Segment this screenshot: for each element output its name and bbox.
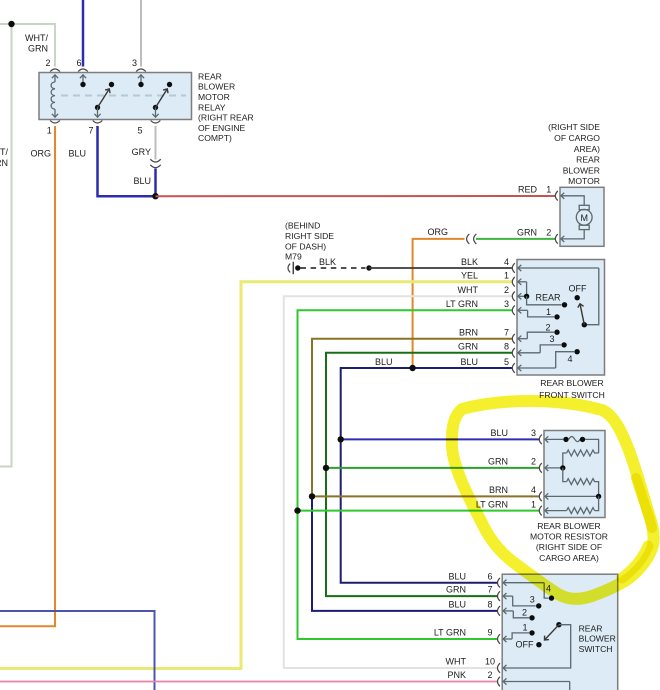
svg-text:RIGHT SIDE: RIGHT SIDE xyxy=(285,231,334,241)
svg-text:BLK: BLK xyxy=(319,257,336,267)
junction on WHT/GRN wire xyxy=(8,21,14,27)
relay pin 6 connector and contact xyxy=(78,69,88,72)
svg-text:MOTOR RESISTOR: MOTOR RESISTOR xyxy=(530,532,608,542)
svg-text:RN: RN xyxy=(0,158,8,168)
svg-text:1: 1 xyxy=(47,126,52,136)
front switch wiper blade xyxy=(582,322,587,327)
wire GRN to front switch pin 8 xyxy=(326,353,512,596)
resistor pin 4 node xyxy=(539,492,542,502)
svg-text:REAR BLOWER: REAR BLOWER xyxy=(540,378,604,388)
svg-text:CARGO AREA): CARGO AREA) xyxy=(539,553,599,563)
relay pin 1 connector xyxy=(50,121,60,124)
front switch pin 2 and REAR common xyxy=(512,292,515,302)
svg-text:6: 6 xyxy=(487,571,492,581)
svg-text:SWITCH: SWITCH xyxy=(579,644,613,654)
rear switch pin 9 to contact 1 xyxy=(498,634,501,644)
svg-text:M79: M79 xyxy=(285,252,302,262)
resistor element R1 xyxy=(567,450,599,456)
svg-text:LT GRN: LT GRN xyxy=(446,299,478,309)
relay K1 box: rear blower motor relay xyxy=(39,73,192,120)
wire BLU into relay pin 6 xyxy=(82,0,85,67)
svg-text:WHT: WHT xyxy=(446,657,467,667)
wire GRY from relay pin 5 xyxy=(155,126,157,160)
wire BLU from relay pin 7 xyxy=(98,126,156,196)
svg-text:6: 6 xyxy=(76,58,81,68)
svg-text:RED: RED xyxy=(518,185,538,195)
front switch pin 7 to contact 2 xyxy=(512,334,515,344)
junction BLU/RED node xyxy=(152,193,158,199)
hand-drawn yellow highlight circle around resistor xyxy=(452,401,654,599)
svg-text:PNK: PNK xyxy=(447,670,466,680)
svg-text:7: 7 xyxy=(88,126,93,136)
front switch pin 8 to contact 3 xyxy=(512,348,515,358)
svg-text:AREA): AREA) xyxy=(574,144,600,154)
svg-text:BLU: BLU xyxy=(460,357,478,367)
svg-text:3: 3 xyxy=(530,595,535,605)
wire PNK to rear blower switch pin 2 xyxy=(0,681,498,683)
inline connector GRY/BLU xyxy=(150,159,160,162)
svg-text:WHT/: WHT/ xyxy=(25,33,48,43)
svg-text:3: 3 xyxy=(504,299,509,309)
svg-text:YEL: YEL xyxy=(461,271,478,281)
svg-text:REAR: REAR xyxy=(576,155,600,165)
wire LT GRN to front switch pin 3 xyxy=(298,310,513,639)
svg-text:GRN: GRN xyxy=(488,457,508,467)
svg-text:(RIGHT REAR: (RIGHT REAR xyxy=(198,113,254,123)
wire GRN to rear blower motor pin 2 xyxy=(476,238,555,240)
svg-text:GRN: GRN xyxy=(446,585,466,595)
svg-text:1: 1 xyxy=(522,622,527,632)
svg-text:OFF: OFF xyxy=(569,284,587,294)
wire WHT to front switch pin 2 xyxy=(284,296,512,668)
rear blower front switch box xyxy=(517,260,605,376)
svg-text:BLOWER: BLOWER xyxy=(198,82,235,92)
relay switch blade 3-5 xyxy=(153,105,158,110)
highlight overlap stroke right xyxy=(636,478,652,528)
svg-text:4: 4 xyxy=(504,257,509,267)
svg-text:OFF: OFF xyxy=(516,640,534,650)
front switch OFF contact xyxy=(575,295,580,300)
svg-text:BLOWER: BLOWER xyxy=(579,634,616,644)
motor brush top xyxy=(579,205,589,209)
svg-text:2: 2 xyxy=(504,285,509,295)
junction ORG/BLU node xyxy=(409,365,415,371)
svg-text:LT GRN: LT GRN xyxy=(434,628,466,638)
svg-text:REAR: REAR xyxy=(536,293,562,303)
front switch pin 4 xyxy=(512,263,515,273)
M79 ground-side connector symbol xyxy=(288,264,290,273)
svg-text:BLU: BLU xyxy=(133,176,151,186)
wire BLU below inline connector xyxy=(154,169,157,197)
svg-text:OF CARGO: OF CARGO xyxy=(554,133,600,143)
svg-text:2: 2 xyxy=(487,670,492,680)
svg-text:7: 7 xyxy=(504,328,509,338)
resistor pin 1 xyxy=(539,506,542,516)
rear blower motor resistor box xyxy=(544,431,605,518)
rear switch pin 7 to contact 3 xyxy=(498,591,501,601)
svg-text:5: 5 xyxy=(504,357,509,367)
rear blower switch box xyxy=(502,574,618,690)
rear switch pin 8 to contact 2 xyxy=(498,606,501,616)
svg-text:GRN: GRN xyxy=(28,44,48,54)
svg-text:REAR BLOWER: REAR BLOWER xyxy=(537,521,601,531)
svg-text:GRN: GRN xyxy=(458,342,478,352)
relay pin 2 connector xyxy=(50,69,60,72)
svg-text:(RIGHT SIDE OF: (RIGHT SIDE OF xyxy=(536,542,602,552)
svg-text:1: 1 xyxy=(531,499,536,509)
svg-text:5: 5 xyxy=(137,126,142,136)
relay dashed actuation line xyxy=(61,95,186,97)
front switch pin 3 to contact 1 xyxy=(512,306,515,316)
wire ORG from relay pin 1 xyxy=(0,126,55,626)
svg-text:1: 1 xyxy=(546,185,551,195)
relay pin 7 lead xyxy=(97,108,99,118)
svg-text:2: 2 xyxy=(546,227,551,237)
wire YEL to front switch pin 1 xyxy=(0,282,512,669)
svg-text:BLU: BLU xyxy=(375,357,393,367)
svg-text:3: 3 xyxy=(549,334,554,344)
rear switch pin 2 lead xyxy=(498,677,501,687)
svg-text:OF ENGINE: OF ENGINE xyxy=(198,123,246,133)
rear switch OFF contact xyxy=(536,642,541,647)
rear switch pin 6 to contact 4 xyxy=(498,578,501,588)
svg-text:BRN: BRN xyxy=(459,328,478,338)
resistor pin 2 node xyxy=(539,463,542,473)
wire BLU bottom left horizontal xyxy=(0,611,155,690)
svg-text:3: 3 xyxy=(531,428,536,438)
svg-text:7: 7 xyxy=(487,585,492,595)
highlight overlap stroke bottom-right xyxy=(622,546,648,578)
svg-text:1: 1 xyxy=(546,307,551,317)
svg-text:9: 9 xyxy=(487,628,492,638)
svg-text:GRN: GRN xyxy=(517,227,537,237)
motor pin 1 xyxy=(555,191,558,201)
wire RED to rear blower motor pin 1 xyxy=(156,195,556,197)
svg-text:BLU: BLU xyxy=(448,571,466,581)
front switch pin 1 xyxy=(512,277,515,287)
wire BLU to front switch pin 5 xyxy=(341,368,512,583)
svg-text:2: 2 xyxy=(545,323,550,333)
svg-text:REAR: REAR xyxy=(579,623,603,633)
svg-text:2: 2 xyxy=(522,607,527,617)
svg-text:(BEHIND: (BEHIND xyxy=(285,221,320,231)
svg-text:ORG: ORG xyxy=(30,149,51,159)
svg-text:BRN: BRN xyxy=(489,485,508,495)
motor pin 2 xyxy=(561,230,584,239)
svg-text:8: 8 xyxy=(504,342,509,352)
svg-text:10: 10 xyxy=(485,657,495,667)
svg-text:4: 4 xyxy=(531,485,536,495)
svg-text:(RIGHT SIDE: (RIGHT SIDE xyxy=(548,122,600,132)
svg-text:BLU: BLU xyxy=(68,149,86,159)
relay coil between pins 2 and 1 xyxy=(52,75,58,78)
rear switch wiper to pin 10 xyxy=(503,625,571,668)
svg-text:COMPT): COMPT) xyxy=(198,133,232,143)
svg-text:4: 4 xyxy=(567,354,572,364)
svg-text:OF DASH): OF DASH) xyxy=(285,241,326,251)
svg-text:2: 2 xyxy=(45,58,50,68)
svg-text:BLOWER: BLOWER xyxy=(563,165,600,175)
svg-text:T/: T/ xyxy=(0,147,8,157)
relay switch blade 6-7 xyxy=(95,105,100,110)
resistor element R3 xyxy=(595,496,599,510)
relay pin 3 connector and contact xyxy=(136,69,146,72)
svg-text:REAR: REAR xyxy=(198,71,222,81)
svg-text:2: 2 xyxy=(531,457,536,467)
motor brush bottom xyxy=(579,225,589,229)
rear switch wiper blade xyxy=(556,622,561,627)
junction on BLK wire xyxy=(366,265,371,270)
svg-text:M: M xyxy=(580,213,588,223)
resistor element R2 xyxy=(563,468,567,482)
svg-text:MOTOR: MOTOR xyxy=(568,176,600,186)
wire WHT/GRN left vertical branch xyxy=(0,24,12,467)
wire BLK to front switch pin 4 xyxy=(369,267,512,269)
wire BRN branch to resistor pin 4 xyxy=(312,495,540,497)
svg-text:BLU: BLU xyxy=(448,600,466,610)
svg-text:BLU: BLU xyxy=(490,428,508,438)
svg-text:ORG: ORG xyxy=(427,227,448,237)
svg-text:8: 8 xyxy=(487,600,492,610)
svg-text:WHT: WHT xyxy=(458,285,479,295)
svg-text:GRY: GRY xyxy=(132,147,151,157)
svg-text:RELAY: RELAY xyxy=(198,102,226,112)
wire BLU from BRN node to rear blower switch pin 8 xyxy=(312,496,498,611)
front switch pin 5 to contact 4 xyxy=(512,363,515,373)
rear blower motor box xyxy=(560,187,604,246)
motor armature M xyxy=(576,209,592,225)
wire GRN branch to resistor pin 2 xyxy=(326,467,540,469)
wire LT GRN branch to resistor pin 1 xyxy=(298,510,540,512)
svg-text:BLK: BLK xyxy=(461,257,478,267)
svg-text:3: 3 xyxy=(132,58,137,68)
wire BLK dashed from M79 xyxy=(301,267,366,269)
svg-text:MOTOR: MOTOR xyxy=(198,92,230,102)
wire GRY into relay pin 3 xyxy=(140,0,142,67)
wire ORG to inline connector near motor xyxy=(413,239,465,368)
inline connector ORG/GRN xyxy=(467,234,470,244)
wire BLU branch to resistor pin 3 xyxy=(341,438,540,440)
resistor pin 3 with thermal limiter xyxy=(539,435,542,445)
wire BRN to front switch pin 7 xyxy=(312,339,512,497)
relay pin 5 lead xyxy=(155,108,157,118)
svg-text:1: 1 xyxy=(504,271,509,281)
wire WHT/GRN horizontal to relay pin 2 xyxy=(0,24,55,67)
